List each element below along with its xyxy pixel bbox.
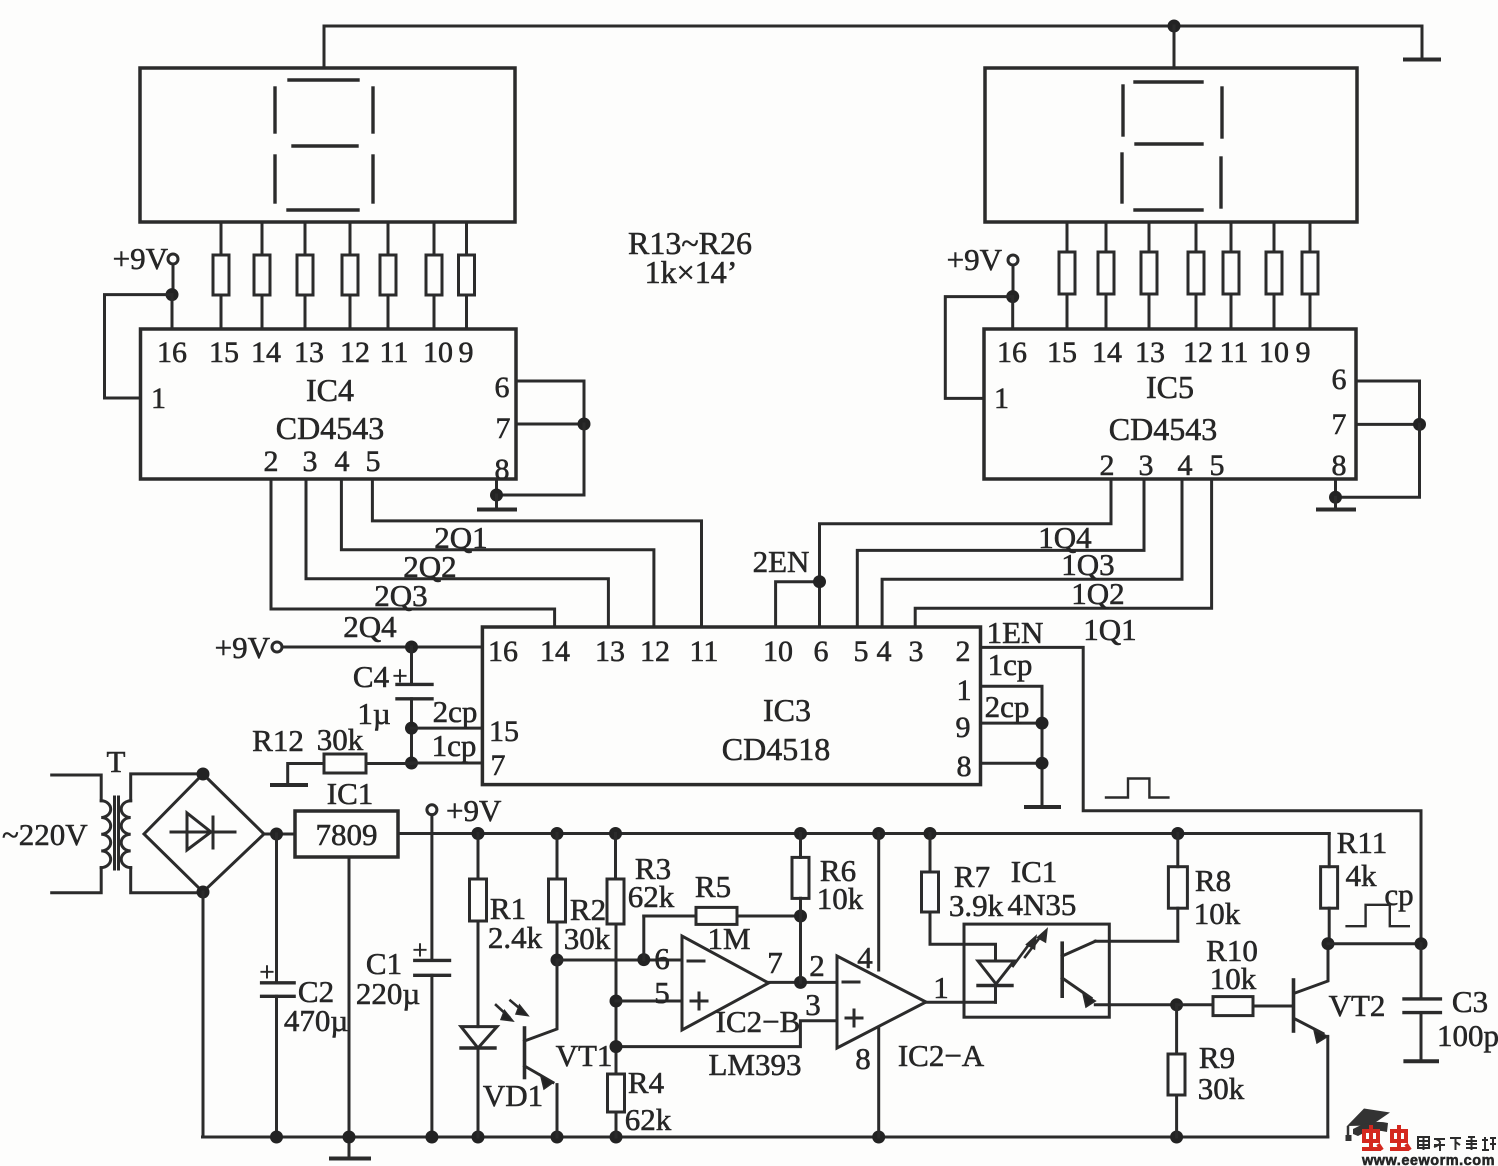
wire bottom rail [203, 1136, 1328, 1139]
svg-text:14: 14 [1092, 336, 1122, 369]
svg-text:2.4k: 2.4k [488, 920, 543, 955]
svg-text:7: 7 [767, 945, 783, 980]
svg-text:4: 4 [857, 940, 873, 975]
svg-text:CD4543: CD4543 [1109, 411, 1217, 447]
svg-text:13: 13 [595, 635, 625, 668]
logo chongchong red characters [1362, 1125, 1410, 1150]
node top junction [1168, 20, 1181, 33]
svg-text:14: 14 [251, 336, 281, 369]
node IC4 pin6/7 junction [578, 418, 591, 431]
svg-text:2Q4: 2Q4 [343, 609, 397, 644]
op IC4 CD4543 box [141, 329, 517, 479]
svg-text:6: 6 [1332, 363, 1347, 396]
node IC5 pin8 junction [1329, 491, 1342, 504]
pulse symbol at IC3 output [1106, 779, 1168, 798]
svg-text:100p: 100p [1437, 1018, 1498, 1053]
svg-text:12: 12 [340, 336, 370, 369]
7-segment display DS1 [140, 68, 515, 222]
node bridge bottom [197, 886, 210, 899]
svg-text:15: 15 [1047, 336, 1077, 369]
phototransistor inside 4N35 [1060, 943, 1064, 996]
svg-text:2: 2 [264, 445, 279, 478]
wire IC3 pin8 [981, 762, 1043, 765]
resistor R21 [1098, 222, 1114, 329]
svg-text:30k: 30k [317, 722, 364, 757]
node C2 top junction [270, 828, 283, 841]
wire IC2-A output to 4N35 [926, 1001, 996, 1004]
wire IC5 pin7/8 to ground [1336, 424, 1420, 497]
7-seg digit DS2 segments [1122, 82, 1222, 210]
label ~220V [2, 817, 88, 852]
svg-text:13: 13 [294, 336, 324, 369]
op IC5 CD4543 box [984, 329, 1356, 479]
wire top common anode net [324, 25, 1422, 28]
transistor VT1 phototransistor [525, 960, 558, 1041]
resistor R6 10k [794, 827, 807, 840]
node rail dots [270, 1131, 1183, 1144]
svg-text:2cp: 2cp [985, 689, 1030, 724]
transformer T core [113, 797, 116, 869]
transformer T primary winding [101, 801, 111, 868]
svg-text:7: 7 [491, 749, 506, 782]
svg-text:IC1: IC1 [327, 776, 374, 811]
svg-text:IC1: IC1 [1011, 854, 1058, 889]
wire IC2-B pin5 input [610, 995, 623, 1008]
node bridge top [197, 768, 210, 781]
bridge diode symbol [171, 831, 235, 834]
labels IC3 pins [488, 635, 972, 783]
wire 2Q1 IC4 pin5 to IC3 pin11 [372, 479, 701, 627]
svg-text:11: 11 [1220, 336, 1249, 369]
svg-text:R11: R11 [1337, 825, 1388, 860]
svg-text:9: 9 [956, 711, 971, 744]
wire pin16 IC5 [1011, 297, 1014, 329]
resistor R4 62k [608, 1074, 625, 1112]
svg-text:3: 3 [1139, 449, 1154, 482]
wire mains input bottom [52, 868, 101, 893]
wire IC2-A pin3 input path [616, 1021, 837, 1047]
label T [107, 744, 126, 779]
svg-text:R12: R12 [252, 723, 304, 758]
label R13~R26 1k x 14 [628, 225, 752, 290]
wire 4N35 collector to R8 [1095, 940, 1178, 943]
wire IC5 pin6 [1356, 381, 1420, 424]
capacitor C1 220u [415, 959, 450, 962]
resistor R14 [254, 222, 270, 329]
diode VD1 [461, 1027, 497, 1048]
svg-text:IC5: IC5 [1146, 369, 1194, 405]
svg-text:16: 16 [997, 336, 1027, 369]
svg-text:62k: 62k [625, 1102, 672, 1137]
wire DS2 anode stub [1173, 26, 1176, 68]
wire IC4 pin6 [516, 381, 584, 424]
LED inside 4N35 [978, 961, 1014, 984]
resistor R8 10k [1171, 827, 1184, 840]
resistor R10 10k [1177, 1003, 1213, 1006]
light arrows into VT1 [496, 1005, 509, 1017]
label IC4 name [276, 372, 384, 446]
svg-text:2: 2 [956, 635, 971, 668]
optocoupler IC1 4N35 box [964, 924, 1109, 1017]
capacitor C2 470u [275, 834, 278, 983]
resistor R16 [342, 222, 358, 329]
labels IC5 pins top [994, 336, 1347, 482]
svg-text:11: 11 [380, 336, 409, 369]
light arrows inside 4N35 [1013, 943, 1030, 966]
comparator IC2-A LM393 [837, 956, 926, 1048]
ground 7809 below rail [348, 1137, 351, 1157]
svg-text:1: 1 [957, 674, 972, 707]
svg-text:2: 2 [809, 948, 825, 983]
svg-text:16: 16 [488, 635, 518, 668]
svg-text:11: 11 [690, 635, 719, 668]
resistor R15 [297, 222, 313, 329]
ground IC3 pins 1/9/8 [1026, 805, 1059, 809]
svg-text:1M: 1M [707, 921, 750, 956]
logo text dianzi xiazaizhan [1418, 1137, 1496, 1151]
ground C3 [1405, 1059, 1437, 1063]
label cp [1384, 877, 1413, 912]
svg-text:1: 1 [151, 382, 166, 415]
resistor R7 3.9k [924, 827, 937, 840]
labels 1Q1-1Q4 2EN [753, 520, 1137, 647]
labels IC4 pins top [151, 336, 511, 486]
logo url [1361, 1153, 1495, 1166]
node IC4 pin8 junction [490, 489, 503, 502]
7-segment display DS2 [985, 68, 1357, 222]
svg-text:1: 1 [994, 382, 1009, 415]
svg-text:8: 8 [957, 750, 972, 783]
svg-text:220µ: 220µ [356, 976, 420, 1011]
wire bridge minus to bottom rail [202, 892, 205, 1137]
svg-text:4: 4 [1178, 449, 1193, 482]
resistor R19 [459, 222, 475, 329]
svg-text:5: 5 [854, 635, 869, 668]
svg-text:9: 9 [459, 336, 474, 369]
wire secondary to bridge [131, 774, 203, 801]
op IC3 CD4518 box [482, 627, 980, 785]
svg-text:3: 3 [805, 987, 821, 1022]
svg-text:CD4518: CD4518 [722, 731, 830, 767]
svg-text:5: 5 [654, 975, 670, 1010]
wire 1Q1 IC5 pin5 to IC3 pin3 [915, 479, 1211, 627]
label IC3 name [722, 692, 830, 767]
svg-text:4k: 4k [1346, 858, 1378, 893]
svg-text:3.9k: 3.9k [949, 888, 1004, 923]
svg-text:+9V: +9V [113, 241, 169, 276]
node +9V terminal IC4 [113, 241, 169, 276]
svg-text:4: 4 [877, 635, 892, 668]
ground top right [1405, 58, 1439, 62]
resistor R22 [1141, 222, 1157, 329]
wire IC4 pin7 [516, 423, 584, 426]
wire 2Q2 IC4 pin4 to IC3 pin12 [341, 479, 654, 627]
node R5 left junction [637, 953, 650, 966]
svg-text:IC2−B: IC2−B [716, 1004, 801, 1039]
svg-text:1Q1: 1Q1 [1083, 612, 1136, 647]
svg-text:13: 13 [1135, 336, 1165, 369]
svg-text:30k: 30k [564, 921, 611, 956]
node 2EN junction [813, 575, 826, 588]
wire cp node [1328, 942, 1421, 945]
svg-text:6: 6 [495, 371, 510, 404]
wire +9V rail [398, 832, 1329, 835]
svg-text:12: 12 [640, 635, 670, 668]
wire 2EN tap IC3 pin10 [776, 582, 820, 627]
node +9V terminal IC3 [215, 630, 271, 665]
resistor R2 30k [551, 827, 564, 840]
svg-text:1cp: 1cp [432, 728, 477, 763]
node VT1 collector junction [551, 954, 564, 967]
capacitor C4 [410, 647, 413, 684]
svg-text:R4: R4 [628, 1065, 665, 1100]
svg-text:C3: C3 [1452, 984, 1488, 1019]
svg-text:IC3: IC3 [763, 692, 811, 728]
svg-text:4: 4 [335, 445, 350, 478]
wire IC2-B pin6 input [557, 959, 682, 962]
svg-text:10k: 10k [1194, 896, 1241, 931]
resistor R13 (bank left col1) [213, 222, 229, 329]
labels 2Q1-2Q4 [343, 520, 487, 644]
wire IC5 pin7 [1356, 423, 1420, 426]
bridge rectifier VD diamond [144, 774, 264, 892]
resistor R20 (bank right col1) [1059, 222, 1075, 329]
wire 1Q3 IC5 pin3 to IC3 pin5 [857, 479, 1144, 627]
node cp junction [1415, 937, 1428, 950]
svg-text:14: 14 [540, 635, 570, 668]
svg-text:R8: R8 [1195, 863, 1231, 898]
wire +9V terminal to C1 [430, 815, 433, 961]
wire 7809 gnd [348, 857, 351, 1137]
svg-text:7: 7 [496, 412, 511, 445]
svg-text:1cp: 1cp [988, 647, 1033, 682]
wire mains input top [52, 775, 101, 801]
svg-text:7: 7 [1332, 408, 1347, 441]
node +9V terminal main [427, 805, 437, 815]
svg-text:470µ: 470µ [284, 1003, 348, 1038]
svg-text:CD4543: CD4543 [276, 410, 384, 446]
capacitor C3 100p [1420, 944, 1423, 999]
label IC5 name [1109, 369, 1217, 447]
svg-text:7809: 7809 [316, 817, 378, 852]
svg-text:2EN: 2EN [753, 544, 810, 579]
node VT2 collector junction [1322, 937, 1335, 950]
svg-text:30k: 30k [1198, 1071, 1245, 1106]
wire IC3 pin9 [981, 722, 1043, 725]
svg-text:VT2: VT2 [1329, 988, 1386, 1023]
svg-text:10: 10 [763, 635, 793, 668]
transformer T secondary winding [121, 801, 131, 868]
wire 4N35 emitter [1095, 1003, 1176, 1006]
svg-text:6: 6 [654, 941, 670, 976]
resistor R1 2.4k [472, 827, 485, 840]
wire IC3 pin1 [981, 686, 1043, 806]
resistor R17 [380, 222, 396, 329]
svg-text:1k×14’: 1k×14’ [645, 254, 738, 290]
svg-text:+9V: +9V [947, 242, 1003, 277]
wire pin16 IC4 [171, 295, 174, 329]
svg-text:+: + [412, 935, 427, 965]
svg-text:12: 12 [1183, 336, 1213, 369]
regulator IC1 7809 [295, 811, 398, 857]
comparator IC2-B LM393 [682, 936, 769, 1030]
resistor R11 4k [1328, 834, 1331, 867]
node IC2-B output junction [794, 976, 807, 989]
wire IC2-A pin4 V+ [872, 827, 885, 840]
resistor R9 30k [1175, 1005, 1178, 1054]
wire to ground top right [1421, 26, 1424, 58]
svg-text:15: 15 [489, 715, 519, 748]
wire IC3 pin7 (1cp) [405, 757, 418, 770]
svg-text:10k: 10k [817, 881, 864, 916]
svg-text:~220V: ~220V [2, 817, 88, 852]
resistor R23 [1188, 222, 1204, 329]
pulse symbol cp [1347, 905, 1409, 926]
svg-text:8: 8 [1332, 449, 1347, 482]
wire +9V to pin16/pin1 IC4 [172, 264, 175, 295]
wire IC2-B output [769, 981, 837, 984]
svg-text:+: + [392, 661, 407, 691]
node R5 right junction [794, 910, 807, 923]
svg-text:3: 3 [909, 635, 924, 668]
wire +9V to pin16/pin1 IC5 [1012, 265, 1015, 297]
svg-text:IC2−A: IC2−A [898, 1038, 985, 1073]
node emitter/R9/R10 junction [1170, 998, 1183, 1011]
node IC5 pin6/7 junction [1413, 418, 1426, 431]
wire 1EN IC3 pin2 to cp node [981, 647, 1422, 943]
resistor R5 1M feedback [642, 916, 645, 960]
svg-text:1: 1 [933, 970, 949, 1005]
ground IC4 pin8 [495, 495, 498, 508]
svg-text:9: 9 [1296, 336, 1311, 369]
resistor R18 [426, 222, 442, 329]
svg-text:+9V: +9V [215, 630, 271, 665]
svg-text:3: 3 [303, 445, 318, 478]
svg-text:15: 15 [209, 336, 239, 369]
wire IC3 pin15 (2cp) [405, 722, 418, 735]
svg-text:www.eeworm.com: www.eeworm.com [1361, 1153, 1495, 1166]
svg-text:+9V: +9V [446, 793, 502, 828]
resistor R12 30k [324, 754, 366, 773]
svg-text:R9: R9 [1199, 1040, 1235, 1075]
svg-text:4N35: 4N35 [1008, 887, 1077, 922]
transistor VT2 [1292, 980, 1296, 1031]
7-seg digit DS1 segments [275, 80, 373, 210]
svg-text:10k: 10k [1210, 961, 1257, 996]
svg-text:10: 10 [1259, 336, 1289, 369]
ground R12 [272, 783, 306, 787]
ground IC5 pin8 [1334, 497, 1337, 508]
resistor R25 [1266, 222, 1282, 329]
wire 2Q4 IC4 pin2 to IC3 pin14 [271, 479, 555, 627]
svg-text:VT1: VT1 [556, 1038, 613, 1073]
svg-text:10: 10 [423, 336, 453, 369]
svg-text:2: 2 [1100, 449, 1115, 482]
wire IC2-A pin8 gnd [877, 1028, 880, 1137]
svg-text:2cp: 2cp [433, 694, 478, 729]
svg-text:16: 16 [157, 336, 187, 369]
wire 1Q4 IC5 pin2 to IC3 pin6 [820, 479, 1112, 627]
svg-text:8: 8 [855, 1041, 871, 1076]
svg-text:T: T [107, 744, 126, 779]
wire 1Q2 IC5 pin4 to IC3 pin4 [882, 479, 1182, 627]
resistor R26 [1302, 222, 1318, 329]
svg-text:+: + [259, 957, 274, 987]
wire 2Q3 IC4 pin3 to IC3 pin13 [306, 479, 608, 627]
svg-text:5: 5 [1210, 449, 1225, 482]
svg-text:5: 5 [366, 445, 381, 478]
svg-text:R5: R5 [695, 869, 731, 904]
svg-text:1Q2: 1Q2 [1071, 576, 1124, 611]
wire bridge plus to 7809 [264, 833, 295, 836]
resistor R24 [1223, 222, 1239, 329]
svg-text:6: 6 [814, 635, 829, 668]
logo graduation cap [1346, 1109, 1391, 1142]
wire DS1 anode stub [323, 26, 326, 68]
resistor R3 62k [609, 827, 622, 840]
svg-text:1EN: 1EN [987, 615, 1044, 650]
wire IC4 pin7/8 to ground [497, 424, 585, 495]
svg-text:2Q3: 2Q3 [374, 578, 427, 613]
wire +9V to IC3 pin16 [282, 646, 482, 649]
svg-text:62k: 62k [628, 879, 675, 914]
svg-text:IC4: IC4 [306, 372, 354, 408]
svg-text:VD1: VD1 [483, 1078, 543, 1113]
svg-text:C4: C4 [353, 659, 390, 694]
node +9V terminal IC5 [947, 242, 1003, 277]
svg-text:LM393: LM393 [709, 1047, 802, 1082]
